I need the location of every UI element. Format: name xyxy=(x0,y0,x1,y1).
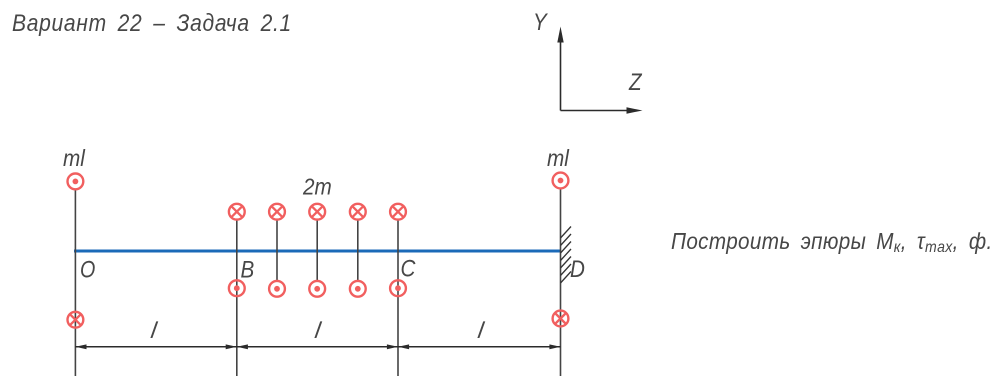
svg-text:C: C xyxy=(401,255,417,282)
moment symbol dot at O top xyxy=(68,174,84,190)
node O xyxy=(80,256,95,283)
moment symbol dot below B xyxy=(229,280,245,296)
shaft beam xyxy=(74,250,561,253)
moment symbol cross 2 xyxy=(269,204,285,220)
dim arrow at O xyxy=(75,344,86,349)
moment symbol cross above B xyxy=(229,204,245,220)
svg-text:Y: Y xyxy=(533,9,549,36)
svg-text:Z: Z xyxy=(628,69,643,96)
wire O vertical xyxy=(74,190,76,376)
svg-text:l: l xyxy=(313,317,323,343)
svg-text:Вариант 22 – Задача 2.1: Вариант 22 – Задача 2.1 xyxy=(12,8,292,36)
svg-text:O: O xyxy=(80,256,95,283)
wire C vertical xyxy=(397,221,399,376)
dim arrow at D xyxy=(549,344,560,349)
moment symbol dot 3 xyxy=(309,281,325,297)
task text xyxy=(671,228,993,256)
dim label l 2 xyxy=(313,317,323,343)
moment symbol dot below C xyxy=(390,280,406,296)
svg-text:ml: ml xyxy=(547,145,570,171)
dim arrows at C xyxy=(387,344,398,349)
svg-text:ml: ml xyxy=(63,145,86,171)
svg-text:l: l xyxy=(149,317,159,343)
svg-text:Построить эпюры Мк, τmax, ф.: Построить эпюры Мк, τmax, ф. xyxy=(671,228,993,256)
moment symbol cross 3 xyxy=(309,204,325,220)
moment symbol cross on D line xyxy=(553,311,569,327)
svg-text:l: l xyxy=(476,317,486,343)
dim label l 1 xyxy=(149,317,159,343)
moment symbol cross on O line xyxy=(68,312,84,328)
dimension line xyxy=(75,346,560,348)
wire mid 3 xyxy=(357,221,359,281)
wire mid 1 xyxy=(276,221,278,281)
node B xyxy=(241,256,255,283)
svg-text:D: D xyxy=(570,256,585,283)
hatching wall at D xyxy=(561,227,572,284)
label ml left xyxy=(63,145,86,171)
moment symbol dot at D top xyxy=(553,173,569,189)
dim arrows at B xyxy=(226,344,237,349)
axis Z arrow xyxy=(561,110,630,112)
label ml right xyxy=(547,145,570,171)
label Z xyxy=(628,69,643,96)
title xyxy=(12,8,292,36)
wire B vertical xyxy=(236,221,238,376)
wire D vertical xyxy=(560,189,562,376)
label Y xyxy=(533,9,549,36)
svg-text:2m: 2m xyxy=(302,173,332,199)
moment symbol dot 4 xyxy=(350,281,366,297)
moment symbol dot 2 xyxy=(269,281,285,297)
moment symbol cross 4 xyxy=(350,204,366,220)
dim label l 3 xyxy=(476,317,486,343)
wire mid 2 xyxy=(316,221,318,281)
svg-text:B: B xyxy=(241,256,255,283)
axis Y arrow xyxy=(560,40,562,111)
node D xyxy=(570,256,585,283)
moment symbol cross above C xyxy=(390,204,406,220)
node C xyxy=(401,255,417,282)
label 2m xyxy=(302,173,332,199)
